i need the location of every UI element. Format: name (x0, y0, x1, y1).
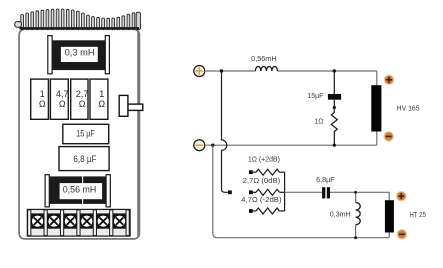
node: cap/resistor junction (333, 106, 336, 109)
capacitor 6,8uF (schematic) (316, 175, 335, 198)
screw terminal 6 (114, 215, 126, 227)
jumper switch (board) (119, 95, 143, 116)
wire: feed to attenuator with hop (222, 71, 229, 192)
svg-text:2,7: 2,7 (76, 89, 89, 99)
coil winding fins top (19, 9, 140, 30)
wire: plus rail top (206, 71, 377, 85)
svg-text:Ω: Ω (79, 99, 86, 109)
inductor 0,3 mH (board) (48, 36, 110, 74)
capacitor 6,8 uF (board) (59, 147, 109, 171)
node A junction (220, 69, 223, 72)
resistor 2,7 Ohm (board) (71, 79, 89, 119)
node B junction (333, 69, 336, 72)
node: coil bottom (354, 236, 357, 239)
screw terminal 2 (48, 215, 60, 227)
resistor 1 Ohm (board, pos1) (31, 79, 49, 119)
wire: tweeter top rail (330, 192, 389, 200)
inductor 0,56mH (schematic) (251, 54, 277, 71)
wire: attenuator bus (284, 172, 286, 211)
inductor 0,3mH (schematic) (330, 192, 361, 237)
svg-text:6,8 µF: 6,8 µF (73, 154, 97, 164)
capacitor 15 uF (board) (63, 124, 109, 143)
resistor 4,7 Ohm (-2dB) (241, 195, 285, 214)
svg-text:HT 25: HT 25 (409, 210, 426, 219)
svg-text:0,3 mH: 0,3 mH (65, 47, 95, 57)
svg-text:2,7Ω (0dB): 2,7Ω (0dB) (243, 176, 281, 185)
speaker HT 25 (385, 191, 426, 240)
terminal strip (board) (27, 209, 130, 236)
wire: bus to capacitor (285, 191, 323, 193)
input terminal plus (194, 66, 205, 77)
winding stub left (15, 22, 22, 28)
terminal strip separators (28, 210, 130, 236)
svg-text:0,3mH: 0,3mH (330, 210, 351, 219)
svg-text:15µF: 15µF (307, 91, 324, 100)
resistor 1 Ohm (+2dB) (248, 155, 285, 176)
svg-text:1: 1 (99, 89, 104, 99)
svg-text:1: 1 (40, 89, 45, 99)
svg-text:Ω: Ω (39, 99, 46, 109)
svg-text:4,7: 4,7 (56, 89, 69, 99)
svg-text:15 µF: 15 µF (76, 128, 95, 138)
resistor 2,7 Ohm (0dB) (243, 176, 285, 196)
svg-text:Ω: Ω (59, 99, 66, 109)
svg-text:0,56mH: 0,56mH (251, 54, 277, 63)
screw terminal 4 (81, 215, 93, 227)
svg-text:6,8µF: 6,8µF (316, 175, 335, 184)
svg-text:1Ω (+2dB): 1Ω (+2dB) (248, 155, 280, 164)
crossover board outline (19, 29, 139, 239)
resistor 4,7 Ohm (board) (50, 79, 68, 119)
svg-text:Ω: Ω (98, 99, 105, 109)
inductor 0,56 mH (board) (45, 175, 110, 207)
node C junction (211, 144, 214, 147)
screw terminal 3 (64, 215, 76, 227)
svg-text:HV 165: HV 165 (397, 104, 420, 113)
resistor 1 Ohm (board, pos4) (90, 79, 108, 119)
svg-text:0,56 mH: 0,56 mH (63, 184, 97, 194)
speaker HV 165 (371, 75, 419, 142)
input terminal minus (194, 140, 205, 151)
resistor 1 Ohm (schematic, vertical) (314, 108, 337, 146)
svg-text:4,7Ω (-2dB): 4,7Ω (-2dB) (241, 195, 282, 204)
screw terminal 5 (97, 215, 109, 227)
svg-text:1Ω: 1Ω (314, 116, 324, 125)
wire: minus drop to tweeter rail (213, 145, 389, 238)
screw terminal 1 (31, 215, 43, 227)
pad: attenuator select (228, 190, 232, 194)
node: resistor to minus rail (333, 144, 336, 147)
capacitor 15uF (schematic) (307, 71, 341, 108)
node: coil top (354, 191, 357, 194)
wire: minus rail (206, 132, 377, 146)
